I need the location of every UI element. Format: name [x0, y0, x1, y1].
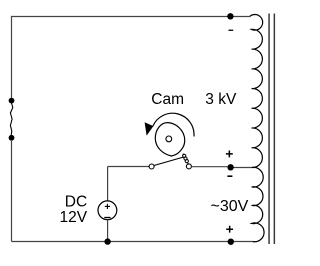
node spark electrode bottom [9, 135, 15, 141]
DC source V1 [98, 201, 117, 220]
node top right junction [227, 13, 233, 19]
wire left upper [11, 16, 13, 99]
wire switch left [108, 166, 150, 168]
wire left lower [11, 140, 13, 242]
svg-text:~30V: ~30V [211, 198, 249, 215]
switch lever [154, 157, 184, 166]
cam shaft [166, 136, 172, 142]
wire top [12, 16, 250, 18]
rotation arrowhead [145, 122, 154, 135]
wire switch right [191, 166, 227, 168]
svg-text:3 kV: 3 kV [205, 91, 237, 108]
DC source - [104, 217, 110, 219]
polarity + above tap [226, 150, 233, 157]
wire bottom [12, 241, 253, 243]
node DC bottom junction [104, 238, 110, 244]
spark gap discharge [10, 103, 12, 135]
polarity - top [229, 30, 234, 31]
svg-text:DC: DC [65, 193, 87, 210]
core line 2 [274, 14, 276, 245]
cam outline [155, 123, 184, 156]
DC source wire lower [107, 220, 109, 242]
svg-text:12V: 12V [60, 209, 88, 226]
node spark electrode top [9, 98, 15, 104]
transformer winding (3kV + ~30V tapped coil) [250, 15, 264, 242]
switch contact right [186, 164, 191, 169]
polarity - below tap [227, 175, 232, 177]
polarity + bottom [226, 226, 233, 233]
switch contact left [149, 164, 154, 169]
node middle tap [227, 164, 233, 170]
wire middle tap [231, 167, 252, 169]
contact spring [183, 154, 189, 165]
DC source wire upper [107, 167, 109, 201]
DC source + [105, 204, 110, 209]
node bottom right junction [228, 239, 234, 245]
core line 1 [268, 14, 270, 245]
svg-text:Cam: Cam [151, 91, 184, 108]
rotation arrow arc [153, 113, 194, 136]
